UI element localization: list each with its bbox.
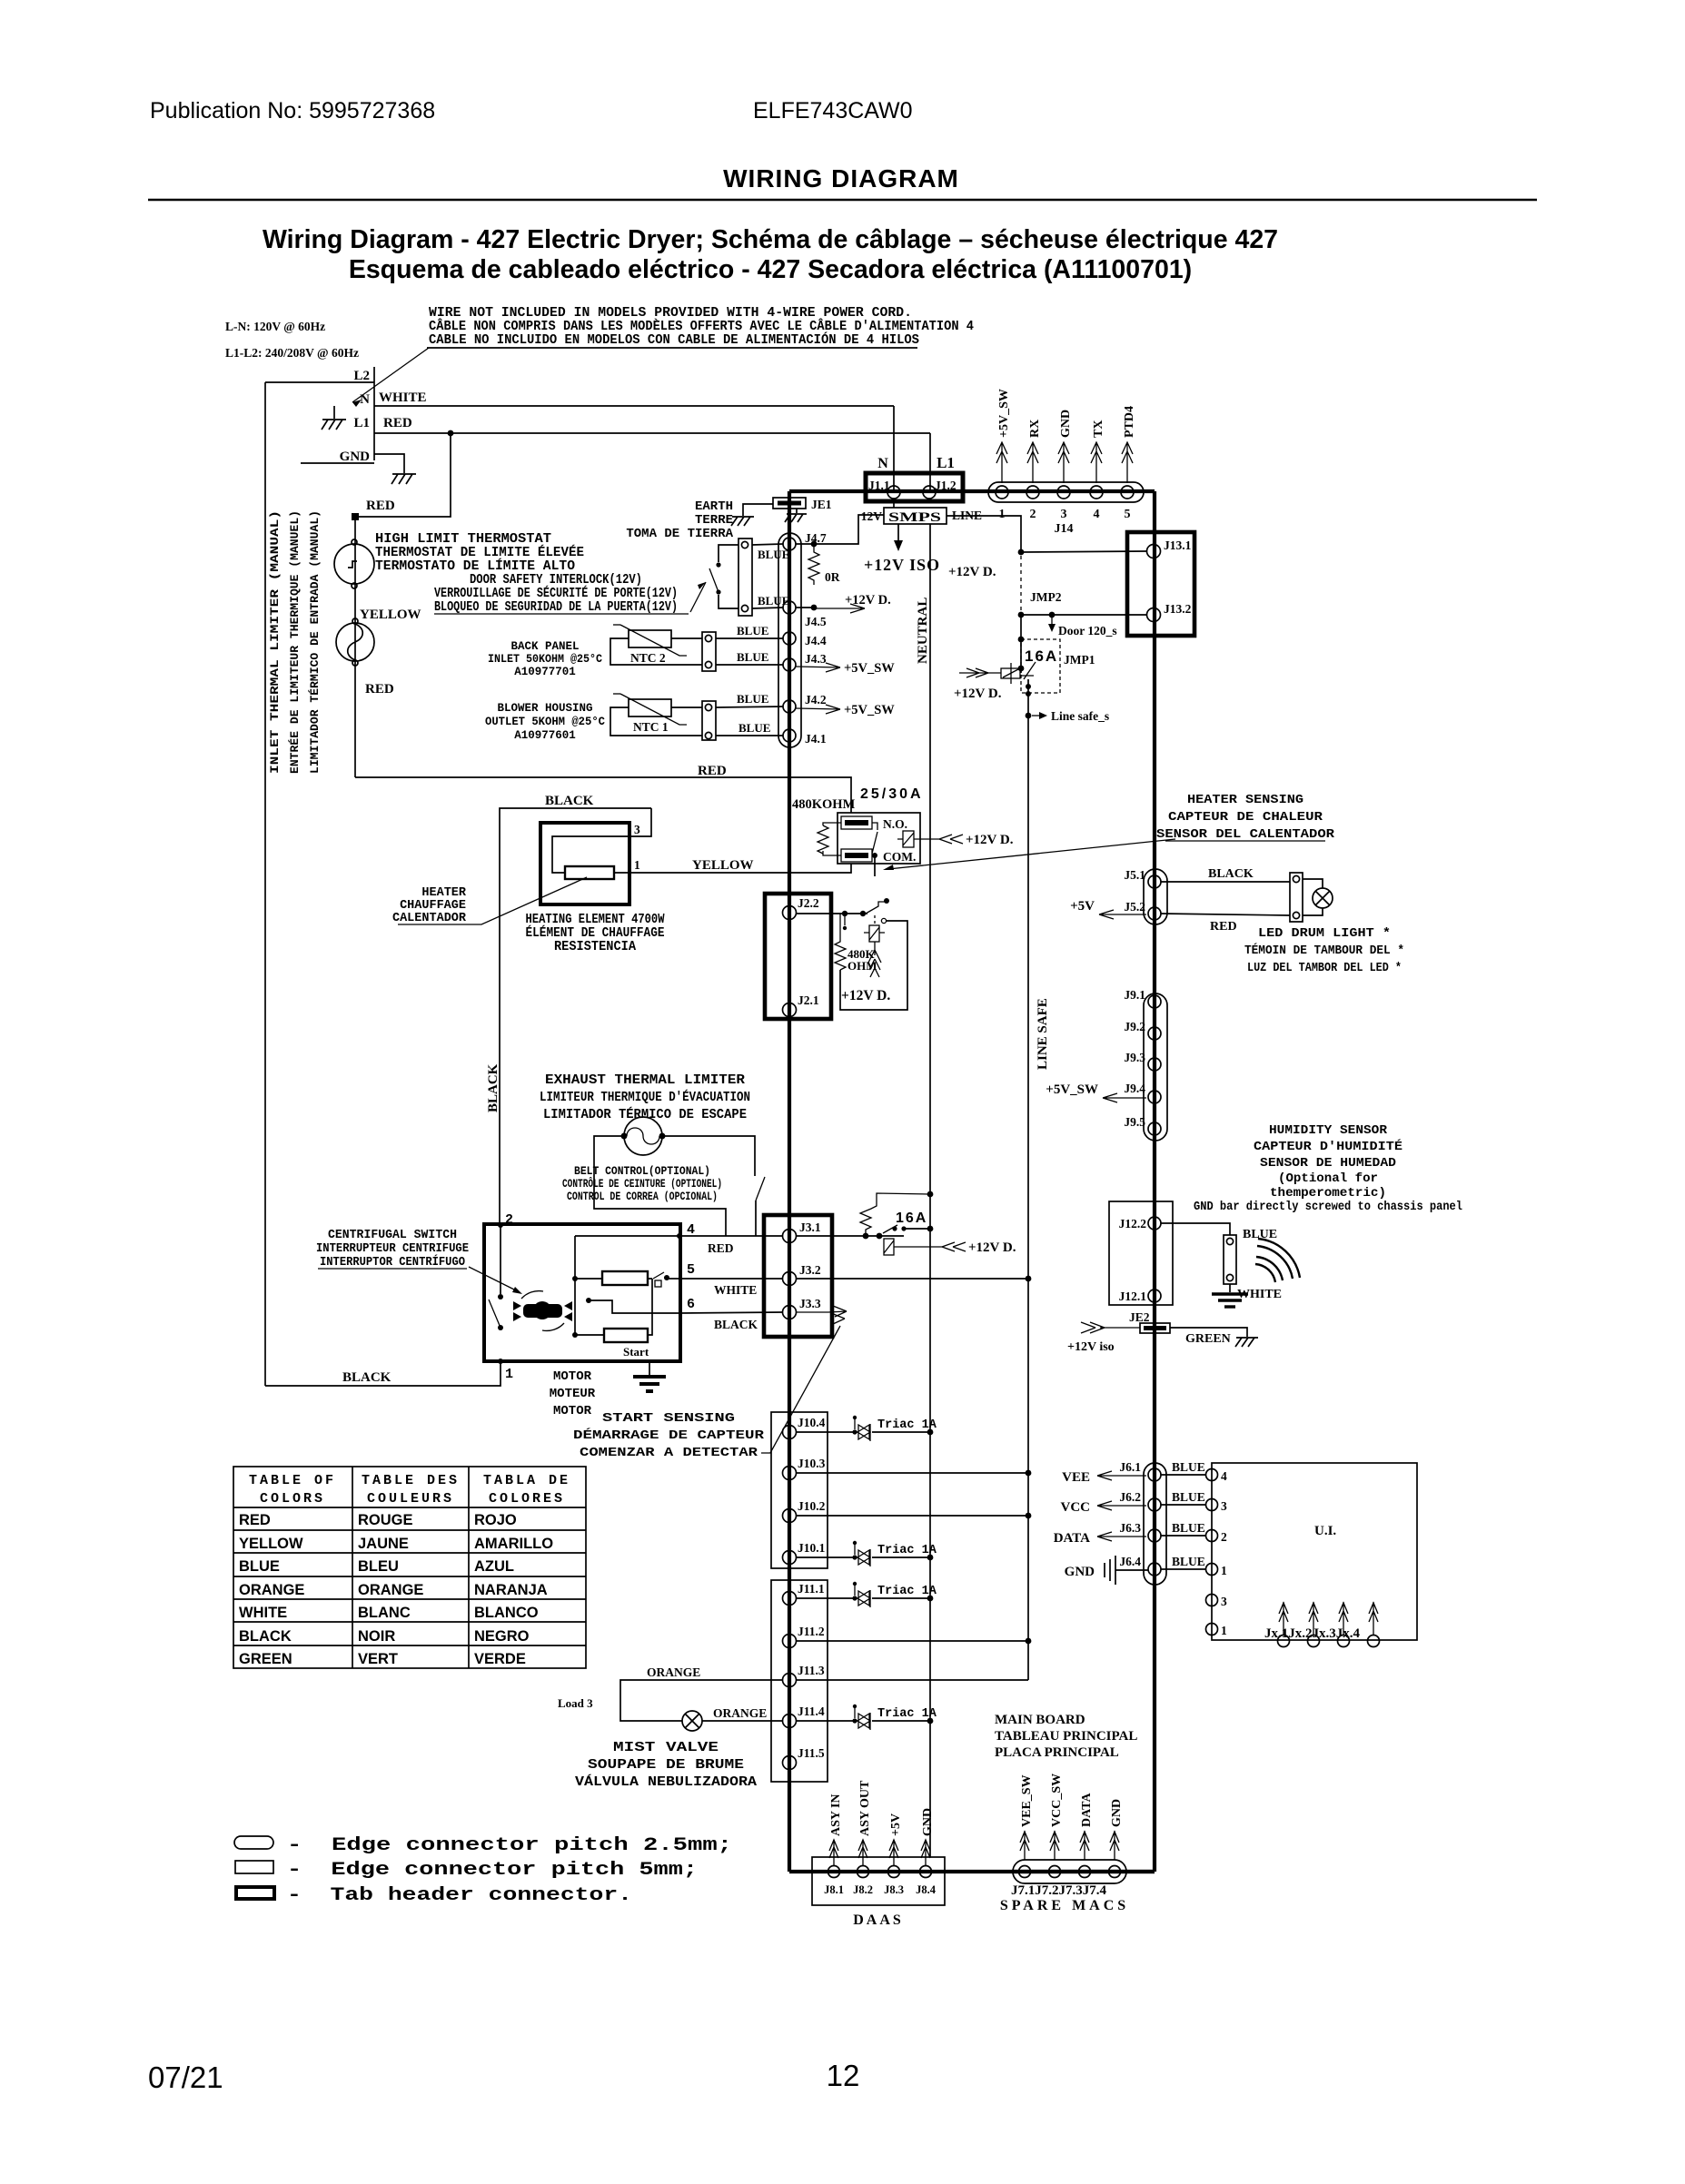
svg-text:BLUE: BLUE bbox=[1172, 1521, 1205, 1535]
J10.2 row to line safe bbox=[796, 1515, 1028, 1517]
junction Door 120_s bbox=[1049, 612, 1056, 618]
redraw bus through J7 bbox=[1013, 1870, 1155, 1873]
svg-text:CAPTEUR D'HUMIDITÉ: CAPTEUR D'HUMIDITÉ bbox=[1254, 1138, 1403, 1154]
svg-text:AMARILLO: AMARILLO bbox=[474, 1536, 553, 1552]
J4.2 pin bbox=[783, 700, 796, 713]
+12V ISO arrow from SMPS bbox=[897, 524, 899, 543]
svg-text:BLACK: BLACK bbox=[239, 1628, 292, 1645]
wire NTC1 to J4.1 bbox=[716, 735, 783, 736]
svg-text:2: 2 bbox=[505, 1212, 513, 1228]
svg-text:ORANGE: ORANGE bbox=[358, 1582, 423, 1598]
JE2 feed arrows +12V iso bbox=[1081, 1322, 1140, 1333]
J6.1 pin bbox=[1148, 1468, 1161, 1481]
svg-text:VÁLVULA NEBULIZADORA: VÁLVULA NEBULIZADORA bbox=[575, 1774, 757, 1790]
svg-text:J11.2: J11.2 bbox=[798, 1625, 825, 1638]
J9.3 pin bbox=[1148, 1058, 1161, 1071]
svg-text:J4.3: J4.3 bbox=[805, 652, 827, 666]
svg-text:J10.4: J10.4 bbox=[798, 1416, 826, 1429]
svg-text:GND: GND bbox=[340, 450, 371, 464]
J10.4 pin bbox=[783, 1426, 797, 1439]
J3.1 pin bbox=[783, 1230, 797, 1243]
svg-text:J5.1: J5.1 bbox=[1124, 868, 1145, 882]
svg-text:5: 5 bbox=[1125, 508, 1131, 521]
svg-text:CONTRÔLE DE CEINTURE (OPTIONEL: CONTRÔLE DE CEINTURE (OPTIONEL) bbox=[562, 1177, 722, 1191]
LED edge connector bbox=[1290, 873, 1303, 922]
svg-text:VCC_SW: VCC_SW bbox=[1050, 1774, 1064, 1827]
svg-text:OHM: OHM bbox=[847, 959, 877, 973]
underline heater label bbox=[398, 924, 466, 925]
wire NTC2 to J4.3 bbox=[716, 664, 783, 666]
wire N WHITE bbox=[374, 405, 894, 407]
door switch contacts bbox=[716, 562, 720, 567]
J9.2 pin bbox=[1148, 1027, 1161, 1040]
right main bus down bbox=[1153, 491, 1156, 1872]
triac at J11.1 bbox=[796, 1597, 857, 1599]
svg-text:HEATER: HEATER bbox=[421, 886, 467, 900]
svg-text:SMPS: SMPS bbox=[888, 510, 941, 525]
svg-text:+12V D.: +12V D. bbox=[966, 833, 1014, 847]
neutral bonding stub bbox=[333, 406, 335, 419]
svg-text:ASY OUT: ASY OUT bbox=[858, 1780, 872, 1836]
Line safe_s arrow bbox=[1032, 715, 1043, 716]
svg-text:J8.1: J8.1 bbox=[824, 1883, 844, 1896]
U.I. box bbox=[1212, 1463, 1417, 1640]
relay sense stub bbox=[874, 855, 876, 876]
svg-text:BLUE: BLUE bbox=[1172, 1555, 1205, 1568]
svg-text:U.I.: U.I. bbox=[1314, 1524, 1336, 1538]
svg-text:J10.1: J10.1 bbox=[798, 1541, 826, 1555]
svg-text:LUZ DEL TAMBOR DEL LED *: LUZ DEL TAMBOR DEL LED * bbox=[1247, 961, 1402, 975]
resistor 0R bbox=[808, 544, 819, 585]
svg-text:GND: GND bbox=[1110, 1799, 1124, 1827]
svg-text:1: 1 bbox=[505, 1367, 513, 1382]
svg-text:16A: 16A bbox=[896, 1211, 927, 1226]
wire pin6 BLACK to J3.3 bbox=[680, 1312, 783, 1313]
svg-text:DAAS: DAAS bbox=[853, 1912, 904, 1928]
svg-text:L2: L2 bbox=[353, 369, 370, 383]
BLACK wire J5.1 to LED bbox=[1161, 881, 1290, 883]
neutral wire below SMPS bbox=[929, 524, 931, 1857]
svg-text:NTC 2: NTC 2 bbox=[630, 651, 666, 665]
svg-text:5: 5 bbox=[687, 1262, 695, 1278]
svg-text:ÉLÉMENT DE CHAUFFAGE: ÉLÉMENT DE CHAUFFAGE bbox=[526, 924, 665, 941]
wire L2 to left rail bbox=[265, 381, 374, 383]
surge arrester symbol bbox=[868, 942, 881, 977]
svg-text:LIMITADOR TÉRMICO DE ENTRADA (: LIMITADOR TÉRMICO DE ENTRADA (MANUAL) bbox=[308, 510, 322, 774]
J14 pin 5 bbox=[1121, 486, 1134, 499]
UI spare pin 1 bbox=[1206, 1624, 1218, 1636]
svg-text:RED: RED bbox=[239, 1512, 271, 1528]
J6.4 pin bbox=[1148, 1563, 1161, 1576]
svg-text:GREEN: GREEN bbox=[239, 1651, 292, 1667]
jumper JMP1 dashed box bbox=[1021, 639, 1060, 693]
left rail BLACK wire down bbox=[264, 382, 266, 1386]
main winding bbox=[602, 1271, 648, 1285]
RED drop wire to thermostat chain bbox=[355, 433, 451, 777]
J3.2 pin bbox=[783, 1272, 797, 1286]
svg-text:TX: TX bbox=[1092, 420, 1105, 438]
thermostat switch arm bbox=[866, 902, 885, 914]
leader heater label to element bbox=[466, 877, 587, 924]
motor pin 2 bbox=[498, 1222, 503, 1228]
svg-text:J6.1: J6.1 bbox=[1119, 1460, 1141, 1474]
J6.2 pin bbox=[1148, 1498, 1161, 1511]
svg-text:RED: RED bbox=[708, 1241, 734, 1255]
svg-text:YELLOW: YELLOW bbox=[360, 608, 421, 622]
UI pin 1 bbox=[1206, 1564, 1218, 1576]
svg-text:INTERRUPTEUR CENTRIFUGE: INTERRUPTEUR CENTRIFUGE bbox=[316, 1241, 469, 1256]
svg-text:WHITE: WHITE bbox=[379, 390, 427, 405]
J7.2 pin bbox=[1049, 1866, 1061, 1878]
junction on J4.7 row bbox=[811, 541, 818, 548]
belt switch lower wire bbox=[755, 1201, 757, 1236]
svg-text:RED: RED bbox=[365, 682, 394, 697]
svg-text:J2.1: J2.1 bbox=[798, 993, 819, 1007]
svg-text:+12V ISO: +12V ISO bbox=[864, 556, 940, 574]
junction dots on line safe bbox=[1026, 684, 1031, 689]
svg-text:COLORS: COLORS bbox=[260, 1491, 325, 1507]
svg-text:EARTH: EARTH bbox=[695, 499, 733, 514]
NTC2 edge connector bbox=[702, 632, 716, 671]
svg-text:GREEN: GREEN bbox=[1185, 1332, 1231, 1346]
J3.3 pin bbox=[783, 1306, 797, 1319]
svg-text:07/21: 07/21 bbox=[148, 2060, 223, 2094]
motor pin 4 bbox=[677, 1233, 682, 1239]
svg-text:DOOR SAFETY INTERLOCK(12V): DOOR SAFETY INTERLOCK(12V) bbox=[470, 573, 642, 588]
svg-text:J11.4: J11.4 bbox=[798, 1705, 825, 1718]
wire SMPS 12V output to J4.7 bbox=[796, 515, 884, 544]
J10.1 pin bbox=[783, 1551, 797, 1565]
svg-text:J6.3: J6.3 bbox=[1119, 1521, 1141, 1535]
UI bottom arrows bbox=[1279, 1602, 1288, 1635]
bottom main bus bbox=[789, 1870, 1155, 1873]
svg-text:GND: GND bbox=[1065, 1565, 1095, 1579]
YELLOW wire element to relay bbox=[629, 864, 851, 873]
svg-text:L-N: 120V @ 60Hz: L-N: 120V @ 60Hz bbox=[225, 320, 325, 333]
svg-text:2: 2 bbox=[1221, 1530, 1227, 1544]
svg-text:TABLA DE: TABLA DE bbox=[483, 1473, 570, 1488]
svg-text:3: 3 bbox=[1061, 508, 1067, 521]
svg-text:PTD4: PTD4 bbox=[1123, 406, 1136, 438]
heater relay box bbox=[838, 813, 920, 864]
J10.3 row to line safe bbox=[796, 1472, 1028, 1474]
leader centrifugal to motor bbox=[469, 1267, 518, 1291]
J4.4 pin bbox=[783, 632, 796, 645]
svg-text:VERROUILLAGE DE SÉCURITÉ DE PO: VERROUILLAGE DE SÉCURITÉ DE PORTE(12V) bbox=[434, 585, 678, 601]
svg-text:Door 120_s: Door 120_s bbox=[1058, 624, 1117, 637]
svg-text:BLACK: BLACK bbox=[1208, 867, 1254, 881]
svg-text:TÉMOIN DE TAMBOUR DEL *: TÉMOIN DE TAMBOUR DEL * bbox=[1244, 942, 1404, 958]
junction at J13.1 row bbox=[1018, 549, 1025, 556]
left main bus down bbox=[788, 491, 791, 1872]
+12V D. arrow at J4.5 bbox=[814, 604, 865, 613]
svg-text:+12V D.: +12V D. bbox=[845, 593, 891, 608]
relay coil wire to +12V D. bbox=[914, 835, 963, 844]
svg-text:BLUE: BLUE bbox=[737, 650, 768, 664]
UI bottom pin Jx.4 bbox=[1368, 1636, 1380, 1647]
16A switch motor circuit bbox=[883, 1225, 897, 1233]
J4.3 pin bbox=[783, 658, 796, 671]
underline centrifugal bbox=[318, 1268, 467, 1270]
power cord terminal strip line bbox=[373, 367, 375, 460]
UI pin 3 bbox=[1206, 1499, 1218, 1511]
svg-text:ORANGE: ORANGE bbox=[647, 1665, 700, 1679]
centrifugal contact bbox=[653, 1272, 669, 1287]
svg-text:J9.3: J9.3 bbox=[1124, 1051, 1145, 1064]
svg-text:4: 4 bbox=[1094, 508, 1100, 521]
J14 signal arrow 3 bbox=[1058, 442, 1069, 483]
svg-text:themperometric): themperometric) bbox=[1270, 1186, 1386, 1201]
J3.2 row to line safe bbox=[796, 1278, 1028, 1280]
start sense tap bbox=[586, 1298, 591, 1303]
connector J10 box bbox=[771, 1412, 828, 1568]
motor pin 1 bbox=[498, 1359, 503, 1364]
edge connector J7 bbox=[1013, 1860, 1126, 1883]
svg-text:TABLE OF: TABLE OF bbox=[249, 1473, 336, 1488]
svg-text:INTERRUPTOR CENTRÍFUGO: INTERRUPTOR CENTRÍFUGO bbox=[320, 1253, 465, 1270]
motor armature bbox=[513, 1291, 572, 1331]
svg-text:L1: L1 bbox=[937, 454, 955, 471]
junction on J4.5 row bbox=[811, 605, 818, 611]
J8.3 pin bbox=[888, 1866, 900, 1878]
svg-text:Esquema de cableado eléctrico: Esquema de cableado eléctrico - 427 Seca… bbox=[349, 255, 1192, 284]
J11.2 row to line safe bbox=[796, 1640, 1028, 1642]
svg-text:GND: GND bbox=[1059, 410, 1073, 438]
svg-text:BLACK: BLACK bbox=[342, 1370, 392, 1385]
J13.1 pin bbox=[1147, 545, 1161, 558]
ground symbol under JE1 bbox=[785, 514, 807, 522]
svg-text:BLUE: BLUE bbox=[737, 692, 768, 706]
junction at J13.2 row bbox=[1018, 612, 1025, 618]
svg-text:VERT: VERT bbox=[358, 1651, 398, 1667]
svg-text:BLUE: BLUE bbox=[758, 548, 789, 561]
junction right bbox=[860, 911, 866, 916]
BLACK wire heater to motor bbox=[500, 808, 651, 1225]
svg-text:J3.1: J3.1 bbox=[799, 1220, 821, 1234]
svg-text:JAUNE: JAUNE bbox=[358, 1536, 409, 1552]
J8 arrows bbox=[829, 1840, 838, 1865]
svg-text:VEE_SW: VEE_SW bbox=[1020, 1774, 1034, 1827]
DATA arrow bbox=[1097, 1532, 1146, 1541]
svg-text:J11.3: J11.3 bbox=[798, 1664, 825, 1677]
svg-text:BLOQUEO DE SEGURIDAD DE LA PUE: BLOQUEO DE SEGURIDAD DE LA PUERTA(12V) bbox=[434, 600, 678, 615]
svg-text:- Tab header connector.: - Tab header connector. bbox=[287, 1885, 632, 1906]
svg-text:RED: RED bbox=[366, 499, 395, 513]
wire J1.1 to SMPS bbox=[893, 499, 895, 508]
J7 arrows bbox=[1020, 1831, 1029, 1860]
svg-text:ENTRÉE DE LIMITEUR THERMIQUE (: ENTRÉE DE LIMITEUR THERMIQUE (MANUEL) bbox=[288, 510, 302, 774]
COM junction bbox=[872, 853, 877, 858]
svg-text:J10.3: J10.3 bbox=[798, 1457, 826, 1470]
svg-text:NEGRO: NEGRO bbox=[474, 1628, 530, 1645]
svg-text:DÉMARRAGE DE CAPTEUR: DÉMARRAGE DE CAPTEUR bbox=[573, 1427, 765, 1443]
svg-text:BLUE: BLUE bbox=[738, 721, 770, 735]
wire N down to J1.1 bbox=[893, 406, 895, 492]
svg-text:1: 1 bbox=[634, 858, 640, 872]
svg-text:CONTROL DE CORREA (OPCIONAL): CONTROL DE CORREA (OPCIONAL) bbox=[567, 1191, 718, 1203]
svg-text:6: 6 bbox=[687, 1297, 695, 1312]
svg-text:GND: GND bbox=[921, 1808, 935, 1836]
GND terminal stub left bbox=[301, 462, 374, 464]
svg-text:YELLOW: YELLOW bbox=[692, 858, 754, 873]
door switch wiring bbox=[719, 545, 738, 608]
J3.3 start sense arrows bbox=[796, 1306, 847, 1324]
J7.1 pin bbox=[1019, 1866, 1031, 1878]
high limit thermostat bbox=[334, 539, 374, 588]
J8.4 pin bbox=[920, 1866, 932, 1878]
RED wire J5.2 to LED bbox=[1161, 914, 1290, 915]
svg-text:+12V D.: +12V D. bbox=[954, 687, 1002, 701]
svg-text:J9.2: J9.2 bbox=[1124, 1020, 1145, 1033]
edge connector J4 bbox=[778, 533, 801, 747]
svg-text:BLANC: BLANC bbox=[358, 1605, 411, 1621]
svg-text:N: N bbox=[877, 456, 888, 471]
svg-text:LIMITADOR TÉRMICO DE ESCAPE: LIMITADOR TÉRMICO DE ESCAPE bbox=[543, 1106, 747, 1122]
svg-text:RED: RED bbox=[1210, 920, 1237, 934]
svg-text:J11.5: J11.5 bbox=[798, 1746, 825, 1760]
relay switch arm bbox=[872, 823, 877, 854]
svg-text:J13.2: J13.2 bbox=[1164, 602, 1192, 616]
edge connector J9 bbox=[1144, 993, 1167, 1141]
+5V_SW arrow at J9.4 bbox=[1103, 1093, 1146, 1102]
thermal fuse bbox=[864, 925, 885, 942]
junction Line safe_s bbox=[1026, 713, 1032, 719]
fuse motor circuit bbox=[884, 1239, 894, 1255]
J5.2 pin bbox=[1148, 907, 1161, 920]
svg-text:3: 3 bbox=[634, 823, 640, 836]
svg-text:Jx.1Jx.2Jx.3Jx.4: Jx.1Jx.2Jx.3Jx.4 bbox=[1264, 1626, 1361, 1641]
svg-text:BLUE: BLUE bbox=[239, 1558, 280, 1575]
svg-text:COLORES: COLORES bbox=[489, 1491, 565, 1507]
edge connector J6 bbox=[1144, 1463, 1166, 1585]
table of colors grid bbox=[233, 1467, 586, 1668]
junction left bbox=[842, 911, 847, 916]
svg-text:NEUTRAL: NEUTRAL bbox=[916, 598, 930, 664]
svg-text:CAPTEUR DE CHALEUR: CAPTEUR DE CHALEUR bbox=[1168, 810, 1323, 825]
svg-text:Wiring Diagram - 427 Electric: Wiring Diagram - 427 Electric Dryer; Sch… bbox=[263, 225, 1278, 254]
relay N.O. terminal bbox=[841, 816, 872, 829]
svg-text:DATA: DATA bbox=[1054, 1531, 1090, 1546]
svg-text:J6.2: J6.2 bbox=[1119, 1490, 1141, 1504]
svg-text:MOTOR: MOTOR bbox=[553, 1404, 592, 1418]
junction on RED wire bbox=[448, 430, 454, 437]
UI pin 2 bbox=[1206, 1530, 1218, 1542]
J4.5 pin bbox=[783, 601, 796, 614]
J11.4 pin bbox=[783, 1715, 797, 1728]
underline heater sensing bbox=[1165, 840, 1325, 842]
svg-text:A10977601: A10977601 bbox=[514, 729, 576, 742]
JE2 wire to ground GREEN bbox=[1170, 1328, 1247, 1337]
thermistor NTC2 bbox=[613, 625, 687, 656]
wire L1 RED bbox=[374, 432, 930, 434]
UI bottom pin Jx.1 bbox=[1278, 1636, 1290, 1647]
element inner wiring bbox=[552, 836, 629, 873]
svg-text:TERMOSTATO DE LÍMITE ALTO: TERMOSTATO DE LÍMITE ALTO bbox=[375, 558, 575, 574]
J4.1 pin bbox=[783, 729, 796, 742]
legend edge connector 2.5mm symbol bbox=[234, 1836, 273, 1849]
svg-text:WIRING DIAGRAM: WIRING DIAGRAM bbox=[723, 164, 959, 193]
GND wire to ground bbox=[374, 454, 404, 473]
J11.5 pin bbox=[783, 1756, 797, 1770]
VEE arrow bbox=[1097, 1471, 1146, 1480]
svg-text:+5V_SW: +5V_SW bbox=[997, 389, 1011, 438]
J2.2 pin bbox=[783, 906, 797, 920]
belt control loop right bbox=[662, 1136, 755, 1176]
element resistor bbox=[565, 866, 614, 879]
motor ground bbox=[649, 1361, 650, 1375]
leader to door switch bbox=[690, 582, 706, 612]
svg-text:WHITE: WHITE bbox=[239, 1605, 287, 1621]
svg-text:VERDE: VERDE bbox=[474, 1651, 526, 1667]
J13.2 pin bbox=[1147, 608, 1161, 622]
svg-text:MAIN BOARD: MAIN BOARD bbox=[995, 1713, 1085, 1727]
svg-text:J12.1: J12.1 bbox=[1119, 1290, 1147, 1303]
svg-text:ROJO: ROJO bbox=[474, 1512, 517, 1528]
pullup resistor to neutral bbox=[860, 1193, 930, 1236]
tab header connector J2 bbox=[765, 894, 831, 1019]
svg-text:+5V: +5V bbox=[1070, 899, 1095, 914]
svg-text:2: 2 bbox=[1030, 508, 1036, 521]
svg-text:3: 3 bbox=[1221, 1499, 1227, 1513]
UI bottom pin Jx.3 bbox=[1338, 1636, 1350, 1647]
warning underline bbox=[427, 347, 917, 349]
svg-text:BLUE: BLUE bbox=[1172, 1490, 1205, 1504]
J6.3 pin bbox=[1148, 1529, 1161, 1542]
+5V_SW arrow at J4.3 bbox=[796, 663, 840, 672]
motor inner circuit rail bbox=[575, 1236, 680, 1335]
J12.2 pin bbox=[1148, 1217, 1161, 1230]
relay COM terminal bbox=[841, 849, 872, 862]
svg-text:J13.1: J13.1 bbox=[1164, 539, 1192, 552]
svg-text:J10.2: J10.2 bbox=[798, 1499, 826, 1513]
svg-text:J4.5: J4.5 bbox=[805, 615, 827, 628]
svg-text:L1-L2: 240/208V @ 60Hz: L1-L2: 240/208V @ 60Hz bbox=[225, 346, 359, 360]
tab header connector J13 bbox=[1127, 532, 1194, 636]
svg-text:COMENZAR A DETECTAR: COMENZAR A DETECTAR bbox=[580, 1446, 758, 1460]
svg-text:LIMITEUR THERMIQUE D'ÉVACUATIO: LIMITEUR THERMIQUE D'ÉVACUATION bbox=[540, 1089, 750, 1105]
svg-text:BLACK: BLACK bbox=[545, 794, 594, 808]
J14 pin 3 bbox=[1057, 486, 1070, 499]
J14 pin 1 bbox=[996, 486, 1008, 499]
svg-text:BLACK: BLACK bbox=[714, 1318, 758, 1331]
legend edge connector 5mm symbol bbox=[235, 1861, 273, 1873]
svg-text:J4.1: J4.1 bbox=[805, 732, 827, 746]
svg-text:RED: RED bbox=[383, 416, 412, 430]
svg-text:VEE: VEE bbox=[1062, 1470, 1090, 1485]
humidity edge connector bbox=[1224, 1235, 1236, 1284]
J14 signal arrow 1 bbox=[996, 442, 1007, 483]
svg-text:12V: 12V bbox=[861, 509, 883, 523]
svg-text:J4.2: J4.2 bbox=[805, 693, 827, 707]
line safe vertical lower bbox=[1027, 679, 1029, 1680]
svg-text:CALENTADOR: CALENTADOR bbox=[392, 912, 467, 925]
heater sensing leader bbox=[888, 839, 1175, 869]
svg-text:BLOWER HOUSING: BLOWER HOUSING bbox=[497, 702, 592, 715]
start sensing leader bbox=[761, 1326, 840, 1453]
earth wire from JE1 bbox=[743, 504, 773, 516]
J3.1 row to 16A circuit bbox=[796, 1235, 904, 1237]
svg-text:ORANGE: ORANGE bbox=[713, 1706, 767, 1720]
J14 signal arrow 2 bbox=[1027, 442, 1038, 483]
ground symbol at neutral bond bbox=[322, 420, 346, 430]
svg-text:BELT CONTROL(OPTIONAL): BELT CONTROL(OPTIONAL) bbox=[574, 1165, 710, 1178]
heating element box bbox=[540, 823, 629, 904]
svg-text:INLET 50KOHM @25°C: INLET 50KOHM @25°C bbox=[488, 653, 602, 666]
wire J12.2 to humidity connector bbox=[1161, 1223, 1230, 1235]
junction above fuse bbox=[1018, 666, 1025, 672]
svg-text:BLACK: BLACK bbox=[486, 1063, 501, 1112]
480K coil resistor wiring bbox=[823, 823, 841, 855]
